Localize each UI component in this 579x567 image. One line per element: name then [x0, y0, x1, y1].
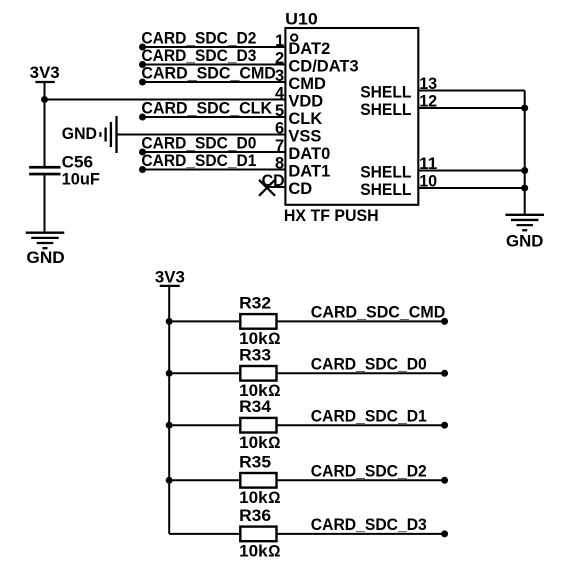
svg-text:Ω: Ω [268, 543, 280, 561]
svg-text:SHELL: SHELL [360, 163, 411, 181]
svg-text:10k: 10k [239, 543, 268, 561]
svg-text:R35: R35 [239, 453, 271, 471]
svg-text:CARD_SDC_D0: CARD_SDC_D0 [311, 356, 427, 374]
svg-text:6: 6 [275, 119, 284, 137]
svg-text:10k: 10k [239, 434, 268, 452]
ground GND (sideways, at VSS) [62, 116, 117, 153]
svg-text:CARD_SDC_D3: CARD_SDC_D3 [311, 516, 427, 534]
wire CARD_SDC_D0 to U10 [143, 151, 286, 153]
junction shell bus pin 12 [521, 105, 528, 112]
wire CARD_SDC_D1 to U10 [143, 169, 286, 171]
junction shell bus pin 11 [521, 167, 528, 174]
svg-text:7: 7 [275, 137, 284, 155]
wire 3V3 pull-up rail [168, 286, 170, 534]
resistor R36 [240, 527, 276, 542]
wire R35 to CARD_SDC_D2 [277, 479, 445, 481]
junction node 3V3/VDD [41, 96, 48, 103]
wire 3V3 to U10 pin 4 VDD [45, 99, 286, 101]
node CARD_SDC_D0 endpoint [441, 370, 448, 377]
resistor R34 [240, 418, 276, 433]
svg-text:3: 3 [275, 67, 284, 85]
svg-text:CARD_SDC_CLK: CARD_SDC_CLK [141, 99, 272, 117]
wire CARD_SDC_CMD to U10 [143, 81, 286, 83]
svg-text:CARD_SDC_CMD: CARD_SDC_CMD [311, 304, 446, 322]
wire SHELL pin 13 to shell bus [418, 90, 524, 92]
svg-text:1: 1 [275, 32, 284, 50]
svg-text:C56: C56 [62, 154, 94, 172]
wire sideways ground to U10 pin 6 VSS [117, 134, 286, 136]
wire C56 to ground [44, 175, 46, 232]
wire rail to R36 [169, 533, 240, 535]
wire rail to R33 [169, 372, 240, 374]
wire R34 to CARD_SDC_D1 [277, 424, 445, 426]
wire shell bus vertical [524, 91, 526, 215]
svg-text:CARD_SDC_D1: CARD_SDC_D1 [311, 408, 427, 426]
svg-text:3V3: 3V3 [30, 64, 60, 82]
svg-text:CARD_SDC_D2: CARD_SDC_D2 [141, 29, 256, 47]
wire SHELL pin 11 to shell bus [418, 170, 524, 172]
junction rail/R32 [166, 318, 173, 325]
node CARD_SDC_D2 [139, 44, 146, 51]
wire R36 to CARD_SDC_D3 [277, 533, 445, 535]
power flag 3V3 (pull-up rail) [155, 268, 185, 286]
resistor R33 [240, 366, 276, 381]
junction rail/R35 [166, 477, 173, 484]
wire SHELL pin 10 to shell bus [418, 187, 524, 189]
junction shell bus pin 10 [521, 185, 528, 192]
svg-text:SHELL: SHELL [360, 83, 411, 101]
svg-text:U10: U10 [285, 11, 318, 29]
wire rail to R35 [169, 479, 240, 481]
svg-text:3V3: 3V3 [155, 268, 185, 286]
ground GND (right, shell) [505, 215, 544, 251]
node CARD_SDC_D3 [139, 61, 146, 68]
svg-text:CD: CD [288, 180, 312, 198]
node CARD_SDC_CMD [139, 79, 146, 86]
svg-text:10k: 10k [239, 489, 268, 507]
node CARD_SDC_CLK [139, 114, 146, 121]
svg-text:DAT2: DAT2 [288, 40, 330, 58]
wire CD pin stub [267, 186, 285, 188]
resistor R32 [240, 314, 276, 329]
svg-text:CARD_SDC_D2: CARD_SDC_D2 [311, 463, 427, 481]
wire CARD_SDC_D2 to U10 [143, 46, 286, 48]
wire R32 to CARD_SDC_CMD [277, 320, 445, 322]
wire 3V3 rail down to C56 [44, 82, 46, 166]
node CARD_SDC_D3 endpoint [441, 530, 448, 537]
wire R33 to CARD_SDC_D0 [277, 372, 445, 374]
svg-text:8: 8 [275, 154, 284, 172]
node CARD_SDC_D1 [139, 166, 146, 173]
ground GND (bottom left) [26, 233, 65, 267]
svg-text:R32: R32 [239, 294, 271, 312]
svg-text:R36: R36 [239, 507, 271, 525]
wire CARD_SDC_D3 to U10 [143, 64, 286, 66]
svg-text:4: 4 [275, 84, 285, 102]
wire rail to R32 [169, 320, 240, 322]
svg-text:SHELL: SHELL [360, 181, 411, 199]
svg-text:DAT1: DAT1 [288, 162, 330, 180]
svg-text:CARD_SDC_D3: CARD_SDC_D3 [141, 47, 256, 65]
svg-text:Ω: Ω [268, 434, 280, 452]
wire CARD_SDC_CLK to U10 [143, 116, 286, 118]
node CARD_SDC_D1 endpoint [441, 422, 448, 429]
svg-text:VDD: VDD [288, 92, 323, 110]
svg-text:HX TF PUSH: HX TF PUSH [284, 207, 379, 225]
svg-text:GND: GND [506, 233, 543, 251]
svg-text:SHELL: SHELL [360, 101, 411, 119]
svg-text:GND: GND [26, 249, 64, 267]
resistor R35 [240, 473, 276, 488]
junction rail/R34 [166, 422, 173, 429]
svg-text:R34: R34 [239, 398, 272, 416]
svg-text:DAT0: DAT0 [288, 145, 330, 163]
wire SHELL pin 12 to shell bus [418, 107, 524, 109]
svg-text:5: 5 [275, 102, 284, 120]
pin 1 indicator circle [291, 34, 297, 40]
svg-text:2: 2 [275, 49, 284, 67]
node CARD_SDC_D0 [139, 149, 146, 156]
junction rail/R33 [166, 370, 173, 377]
svg-text:10uF: 10uF [62, 171, 100, 189]
svg-text:GND: GND [62, 125, 97, 143]
wire rail to R34 [169, 424, 240, 426]
node CARD_SDC_CMD endpoint [441, 318, 448, 325]
svg-text:CARD_SDC_D0: CARD_SDC_D0 [141, 134, 256, 152]
svg-text:CARD_SDC_D1: CARD_SDC_D1 [141, 152, 256, 170]
svg-text:CMD: CMD [288, 75, 326, 93]
svg-text:R33: R33 [239, 346, 271, 364]
svg-text:VSS: VSS [288, 127, 321, 145]
svg-text:Ω: Ω [268, 489, 280, 507]
capacitor C56 [29, 166, 60, 176]
power flag 3V3 (top left) [30, 64, 60, 82]
node CARD_SDC_D2 endpoint [441, 477, 448, 484]
svg-text:CD/DAT3: CD/DAT3 [288, 57, 358, 75]
no-connect X on CD pin [259, 180, 275, 196]
svg-text:CARD_SDC_CMD: CARD_SDC_CMD [141, 64, 276, 82]
connector U10 body [285, 28, 418, 205]
svg-text:CLK: CLK [288, 110, 322, 128]
